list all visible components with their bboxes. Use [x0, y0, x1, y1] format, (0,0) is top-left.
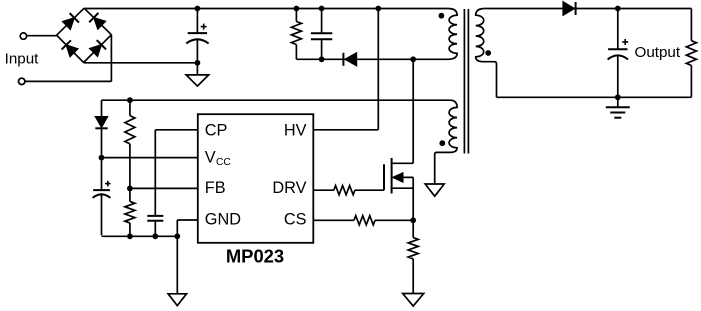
wire DRV — [313, 189, 334, 191]
transistor Q1 channel — [391, 158, 393, 194]
wire input bottom — [25, 80, 112, 82]
bridge diode D3 — [66, 45, 78, 57]
capacitor C3 snubber — [321, 9, 323, 34]
svg-text:MP023: MP023 — [226, 245, 284, 266]
node divider top — [127, 97, 133, 103]
plus sign C4 — [105, 183, 111, 185]
node output bottom — [615, 94, 621, 100]
transformer T1 primary — [448, 9, 457, 60]
svg-text:CS: CS — [284, 210, 307, 228]
ground main — [176, 236, 178, 293]
wire bottom terminal riser — [110, 35, 112, 82]
capacitor C5 cp — [147, 215, 163, 217]
input terminal bottom — [19, 78, 25, 84]
node R3 bottom — [127, 233, 133, 239]
wire CP — [155, 129, 198, 131]
wire clamp — [296, 58, 448, 60]
resistor R5 cs — [354, 216, 375, 225]
plus sign C1 — [201, 26, 207, 28]
bridge side bottom-right — [84, 35, 112, 63]
transformer T1 aux winding — [435, 100, 457, 184]
node C5 bottom — [152, 233, 158, 239]
bridge side left-bottom — [57, 35, 84, 62]
node HV top rail — [375, 6, 381, 12]
node output top — [615, 6, 621, 12]
bridge diode D2 — [94, 18, 106, 30]
wire input top to bridge — [27, 35, 57, 37]
wire secondary top rail — [485, 8, 692, 10]
wire CS to source — [375, 219, 413, 221]
bridge side left-top — [57, 8, 85, 35]
svg-text:V: V — [205, 149, 216, 167]
svg-text:CP: CP — [205, 121, 228, 139]
svg-text:Input: Input — [5, 50, 40, 67]
resistor R4 gate — [334, 186, 355, 195]
capacitor C2 output — [617, 9, 619, 50]
transistor Q1 gate bar — [383, 164, 385, 190]
node GND rail — [174, 233, 180, 239]
svg-text:GND: GND — [205, 210, 241, 228]
node R1 top — [294, 6, 300, 12]
node C1 bottom — [195, 60, 201, 66]
transformer T1 secondary — [476, 9, 497, 98]
node C3 bottom — [319, 56, 325, 62]
ground aux — [425, 184, 444, 196]
svg-text:Output: Output — [635, 44, 681, 61]
transistor Q1 drain — [412, 59, 414, 163]
wire secondary bottom rail — [497, 96, 692, 98]
plus sign C2 — [622, 41, 628, 43]
op-amp U1 MP023 box — [198, 114, 313, 243]
wire GND pin — [177, 219, 198, 221]
node VCC — [99, 155, 105, 161]
wire HV — [313, 129, 378, 131]
svg-text:HV: HV — [284, 121, 307, 139]
node source sense — [410, 217, 416, 223]
resistor R3 divider bottom — [129, 188, 131, 201]
svg-text:CC: CC — [216, 157, 231, 168]
wire ground rail — [102, 235, 178, 237]
bridge side top-right — [84, 8, 111, 35]
phase dot primary — [439, 13, 445, 19]
node FB — [127, 186, 133, 192]
wire VCC rail — [102, 157, 198, 159]
resistor R6 sense — [412, 220, 414, 237]
svg-text:DRV: DRV — [272, 179, 306, 197]
capacitor C4 vcc — [101, 158, 103, 191]
wire top rail — [84, 8, 448, 10]
svg-text:FB: FB — [205, 179, 226, 197]
phase dot secondary — [485, 50, 491, 56]
input terminal top — [20, 33, 26, 39]
wire FB — [130, 187, 198, 189]
wire CS — [313, 219, 354, 221]
wire gate — [355, 189, 384, 191]
resistor R1 snubber — [295, 9, 297, 22]
diode D7 output — [563, 2, 574, 16]
bridge diode D4 — [90, 45, 102, 57]
resistor R7 load — [690, 9, 692, 41]
transformer core — [463, 9, 465, 154]
ground sense — [403, 294, 424, 307]
wire aux branch top — [101, 100, 103, 116]
resistor R2 divider top — [129, 100, 131, 115]
wire aux supply — [102, 99, 450, 101]
capacitor C1 bulk — [196, 9, 198, 34]
earth ground output — [617, 97, 619, 107]
node drain tap — [410, 56, 416, 62]
diode D5 clamp — [345, 53, 357, 66]
node C3 top — [319, 6, 325, 12]
diode D6 vcc rectifier — [95, 117, 107, 128]
transistor Q1 source — [392, 187, 414, 189]
transistor Q1 arrow — [395, 176, 414, 178]
node C1 top — [195, 6, 201, 12]
wire rectified minus rail — [84, 62, 198, 64]
bridge diode D1 — [63, 18, 75, 30]
ground below C1 — [196, 63, 198, 75]
phase dot aux — [439, 140, 445, 146]
